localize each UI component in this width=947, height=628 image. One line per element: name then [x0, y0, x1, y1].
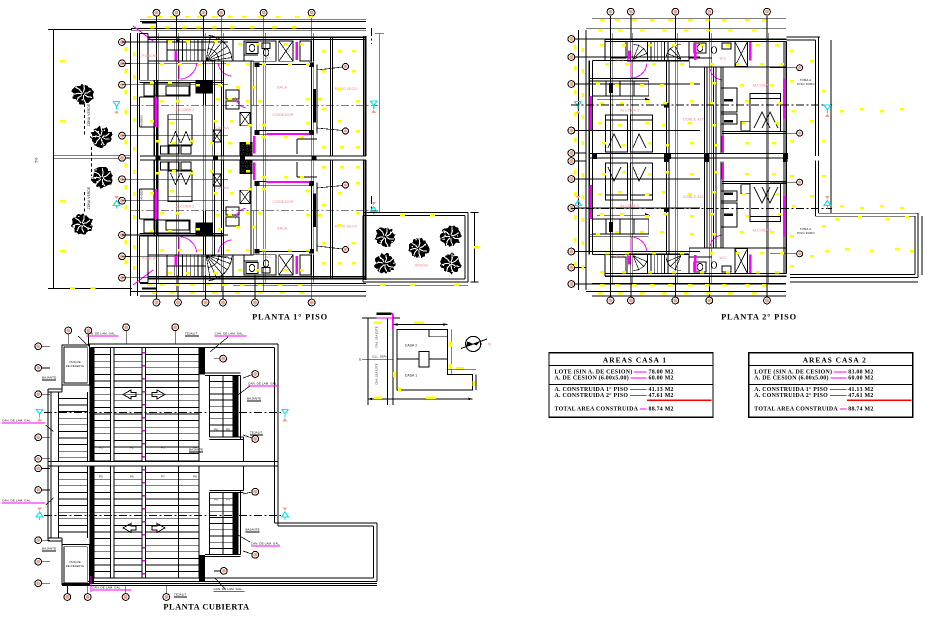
sala window black bar: [313, 89, 316, 123]
svg-text:BAJANTE: BAJANTE: [42, 376, 56, 380]
plan1 left cyan level markers: [113, 102, 120, 110]
p2 magenta below alcoba: [722, 163, 724, 179]
svg-text:LOTE (SIN A. DE CESION): LOTE (SIN A. DE CESION): [754, 368, 832, 375]
kitchen x-box: [240, 190, 250, 203]
table frame AREAS CASA 2: [749, 353, 913, 418]
hall wall below stairs: [148, 254, 254, 256]
entry door arc: [180, 64, 197, 79]
unit outer top wall: [148, 36, 366, 38]
svg-text:CRA. 22A ESTE: CRA. 22A ESTE: [375, 363, 379, 385]
svg-text:47.61 M2: 47.61 M2: [848, 393, 873, 399]
svg-text:W.C.: W.C.: [720, 57, 728, 61]
p2 left wall magenta window: [590, 185, 593, 219]
svg-text:CRA. 22A ESTE: CRA. 22A ESTE: [375, 326, 379, 348]
zona verde dashed dividers: [84, 104, 86, 136]
plan1 left grid line: [130, 33, 132, 296]
wc block: [244, 255, 276, 275]
svg-text:60.00 M2: 60.00 M2: [848, 376, 873, 382]
alcoba bed: [168, 171, 192, 201]
plan1 right dashdot vertical: [371, 28, 373, 44]
p2 stair magenta strip: [628, 50, 631, 59]
interior door arc 2: [218, 63, 232, 76]
svg-text:41.13 M2: 41.13 M2: [848, 387, 873, 393]
small x-box by party wall: [213, 174, 221, 186]
porch wall continuation: [139, 61, 141, 80]
p2 left wall magenta window: [590, 96, 593, 130]
p2 wardrobe column: [720, 67, 722, 154]
roof tank box top-left: [62, 345, 89, 385]
svg-text:N: N: [488, 342, 491, 347]
svg-text:BAJA: BAJA: [616, 59, 625, 63]
roof cyan markers: [36, 409, 43, 417]
p2 closet x-box: [735, 249, 748, 274]
p2 right wall magenta: [783, 78, 786, 119]
p2 left wall: [588, 158, 590, 255]
plan1 unit1 geometry: [140, 34, 366, 157]
sala walls: [257, 64, 312, 66]
plan1 top grid circles: [156, 17, 158, 38]
roof right panels lower: [205, 553, 241, 555]
tree Z2: [89, 126, 112, 149]
sala bottom magenta window: [267, 181, 309, 183]
alcoba bed: [168, 115, 192, 145]
p2 right wall: [783, 158, 785, 274]
p2 stair block: [627, 42, 688, 61]
svg-text:CASA 2: CASA 2: [405, 344, 417, 348]
svg-text:P9: P9: [226, 428, 230, 432]
roof step lines right: [243, 437, 245, 462]
svg-text:PISO DURO: PISO DURO: [797, 231, 815, 235]
tree J4: [374, 253, 396, 274]
site casa2 lot outline: [397, 330, 448, 360]
svg-text:COCINA: COCINA: [215, 126, 229, 130]
p2 beds left room: [606, 115, 628, 152]
svg-text:CASA 1: CASA 1: [405, 374, 417, 378]
svg-text:TOTAL AREA CONSTRUIDA: TOTAL AREA CONSTRUIDA: [555, 407, 639, 413]
svg-text:CAN. DE LAM. GAL.: CAN. DE LAM. GAL.: [215, 332, 244, 336]
roof tank box bottom-left: [62, 545, 89, 585]
svg-text:BAJANTE: BAJANTE: [189, 448, 203, 452]
svg-text:88.74 M2: 88.74 M2: [649, 407, 674, 413]
bedside tables and footer: [161, 146, 169, 154]
svg-text:P3: P3: [161, 446, 165, 450]
stair block: [167, 255, 233, 277]
p2 stair fan right: [675, 45, 681, 60]
p2 bath wall: [689, 66, 786, 68]
svg-text:TEJALIT: TEJALIT: [174, 593, 186, 597]
p2 closet arrow: [597, 99, 650, 101]
sala window black bar: [313, 194, 316, 228]
svg-text:CAN. DE LAM. GAL.: CAN. DE LAM. GAL.: [2, 419, 31, 423]
mid column walls: [250, 61, 252, 156]
svg-text:COCINA: COCINA: [215, 186, 229, 190]
roof mid band: [48, 461, 278, 463]
site yellow marks: [374, 322, 382, 325]
entry door arc: [180, 237, 197, 253]
sala columns: [255, 249, 260, 254]
sala walls: [257, 251, 312, 253]
svg-text:LOTE (SIN A. DE CESION): LOTE (SIN A. DE CESION): [555, 368, 633, 375]
svg-text:TEJALIT: TEJALIT: [250, 431, 262, 435]
jardin dimension lines: [473, 212, 475, 282]
svg-text:E: E: [359, 358, 361, 362]
plan1 yellow marks interior: [168, 40, 172, 42]
plan1 unit2 geometry (mirror): [140, 160, 366, 283]
plan1 yellow dimension marks: [147, 16, 152, 18]
svg-text:DE RESERVA: DE RESERVA: [66, 564, 85, 568]
plan2 left cyan markers: [575, 102, 582, 110]
svg-text:78.00 M2: 78.00 M2: [649, 369, 674, 375]
laundry band below sala: [297, 176, 317, 178]
top-right cabinet: [300, 255, 311, 275]
plan1 yellow marks garden: [410, 284, 415, 286]
svg-text:CAN. DE LAM. GAL.: CAN. DE LAM. GAL.: [87, 332, 116, 336]
left wall magenta window: [155, 97, 157, 127]
stove magenta strip: [253, 136, 255, 154]
plan2 horizontal grid lines: [571, 56, 700, 58]
svg-text:ALCOBA 1: ALCOBA 1: [753, 84, 772, 88]
site road lines: [367, 318, 369, 405]
svg-text:(CLL. SEPA): (CLL. SEPA): [372, 356, 388, 359]
svg-text:ZONA VERDE: ZONA VERDE: [87, 187, 91, 210]
p2 porch box top-left: [611, 257, 626, 274]
p2 columns: [664, 207, 669, 212]
svg-text:41.13 M2: 41.13 M2: [649, 387, 674, 393]
plan1 entry ramp black bar: [142, 22, 157, 24]
p2 closet x-box: [735, 42, 748, 67]
plan1 bottom grid circles: [156, 275, 158, 299]
roof outer boundary: [88, 343, 278, 345]
p2 closet band left: [589, 77, 649, 79]
svg-text:P9: P9: [226, 498, 230, 502]
plan1 garden jardin outline: [363, 211, 468, 213]
plan1 party wall band: [140, 155, 366, 157]
svg-text:ALCOBA 2: ALCOBA 2: [176, 205, 195, 209]
alcoba closet wall: [212, 61, 214, 156]
plan2 yellow marks: [600, 19, 605, 21]
p2 closet band left: [589, 236, 649, 238]
plan2 garden extension: [818, 212, 918, 214]
kitchen x-box: [240, 112, 250, 125]
p2 bench: [741, 185, 750, 194]
p2 wardrobe column: [720, 162, 722, 249]
p2 right wall: [783, 42, 785, 158]
p2 magenta strip: [749, 42, 752, 61]
svg-text:DE RESERVA: DE RESERVA: [66, 364, 85, 368]
p2 columns: [664, 103, 669, 108]
svg-text:COMEDOR: COMEDOR: [272, 200, 293, 204]
p2 stair door arc: [632, 63, 647, 78]
svg-text:A. CONSTRUIDA 1° PISO: A. CONSTRUIDA 1° PISO: [754, 386, 828, 393]
alcoba closet band: [140, 235, 224, 237]
svg-text:JARDIN: JARDIN: [414, 264, 428, 268]
p2 mid wall vertical: [665, 158, 667, 255]
plan2 right cyan markers: [824, 105, 831, 113]
plan1 yellow marks left column: [125, 47, 127, 52]
kitchen appliances: [226, 90, 239, 99]
magenta strip right of closet: [296, 42, 299, 60]
p2 alcoba1 door arc: [710, 235, 722, 246]
plan1 top dimension lines: [140, 19, 366, 21]
plan1 right dimension line: [378, 34, 380, 213]
p2 void railing lines: [703, 158, 705, 249]
svg-text:TOTAL AREA CONSTRUIDA: TOTAL AREA CONSTRUIDA: [754, 407, 838, 413]
svg-text:47.61 M2: 47.61 M2: [649, 393, 674, 399]
p2 wc magenta strip left: [694, 255, 697, 272]
p2 top wall: [605, 275, 786, 277]
svg-text:P8: P8: [193, 475, 197, 479]
svg-text:AREAS CASA 1: AREAS CASA 1: [603, 355, 667, 364]
magenta strip right of closet: [296, 256, 299, 274]
top-right cabinet: [300, 41, 311, 61]
svg-text:BAJA: BAJA: [616, 254, 625, 258]
p2 wc block: [689, 248, 735, 273]
p2 top wall: [605, 38, 786, 40]
plan2 interior circles right rooms: [770, 67, 796, 69]
unit left outer wall: [153, 160, 155, 236]
site road cross line: [362, 358, 393, 360]
kitchen dark box: [196, 223, 213, 236]
plan2 bottom grid circles: [610, 276, 612, 297]
svg-text:CAN. DE LAM. GAL.: CAN. DE LAM. GAL.: [92, 586, 121, 590]
svg-text:PLANTA 2° PISO: PLANTA 2° PISO: [721, 313, 797, 322]
plan2 right boundary: [786, 36, 820, 38]
p2 bench: [741, 121, 750, 130]
patio seco walls: [329, 37, 331, 156]
roof slope arrows lower: [123, 523, 136, 532]
roof thick bar right bottom: [199, 555, 205, 581]
sala bottom magenta window: [267, 133, 309, 135]
p2 stair door arc: [632, 237, 647, 252]
p2 right wall magenta: [783, 196, 786, 237]
plan2 party wall band: [589, 153, 786, 155]
p2 alcoba1 door arc: [710, 69, 722, 80]
svg-text:P2: P2: [130, 446, 134, 450]
bedside tables and footer: [161, 162, 169, 170]
stove magenta strip: [253, 163, 255, 181]
alcoba right wall: [220, 160, 222, 255]
roof panels upper unit: [58, 392, 60, 462]
svg-text:P6: P6: [130, 475, 134, 479]
p2 beds left room: [606, 163, 628, 200]
site north compass: [466, 336, 481, 351]
svg-text:PLANTA CUBIERTA: PLANTA CUBIERTA: [163, 603, 249, 612]
patio seco walls: [329, 160, 331, 279]
left wall magenta window: [155, 189, 157, 219]
p2 wc block: [689, 42, 735, 67]
roof leader lines: [78, 336, 95, 352]
tree J3: [408, 238, 429, 258]
plan right wall: [363, 36, 365, 156]
plan1 horizontal grid lines: [122, 41, 228, 43]
svg-text:CAN. DE LAM. GAL.: CAN. DE LAM. GAL.: [2, 499, 31, 503]
hall wall below stairs: [148, 60, 254, 62]
roof thick bar left: [90, 348, 95, 462]
table red underline AREAS CASA 1: [647, 399, 712, 401]
p2 alcoba1 bottom wall: [722, 183, 786, 185]
site casa1 lot outline: [397, 359, 473, 390]
stove hatch box: [240, 143, 252, 157]
svg-text:A. CONSTRUIDA 2° PISO: A. CONSTRUIDA 2° PISO: [555, 392, 629, 399]
svg-text:AREAS CASA 2: AREAS CASA 2: [803, 355, 867, 364]
roof grid circles bottom: [64, 594, 71, 601]
small x-box by party wall: [213, 130, 221, 142]
stair rail lines: [167, 49, 206, 51]
svg-text:TEJALIT: TEJALIT: [185, 332, 197, 336]
svg-text:5%: 5%: [35, 157, 39, 162]
p2 stair fan right: [675, 256, 681, 271]
p2 stair magenta strip: [628, 256, 631, 265]
p2 hall wall: [592, 60, 689, 62]
unit left porch walls: [139, 255, 141, 283]
plan2 unit2 geometry mirror: [589, 157, 788, 276]
wc block: [244, 41, 276, 61]
p2 wc magenta strip left: [694, 43, 697, 60]
plan2 left grid line and dimension lines: [578, 30, 580, 290]
alcoba right wall: [220, 61, 222, 156]
plan2 bottom dimension lines: [592, 283, 786, 285]
stair fan: [206, 36, 211, 62]
p2 stair fan left: [633, 45, 639, 60]
roof panels lower unit: [58, 466, 60, 538]
p2 alcoba1 bottom wall: [722, 131, 786, 133]
plan1 bottom ramp magenta: [133, 270, 153, 285]
roof left profile: [47, 389, 49, 541]
hall-kitchen wall: [202, 211, 204, 255]
svg-text:BAJANTE: BAJANTE: [246, 528, 260, 532]
unit left outer wall: [153, 80, 155, 156]
tree J2: [440, 225, 462, 247]
svg-text:ALCOBA 1: ALCOBA 1: [753, 229, 772, 233]
svg-text:A. DE CESION (6.00x5.00): A. DE CESION (6.00x5.00): [555, 375, 629, 382]
svg-text:ALCOBA 3: ALCOBA 3: [620, 204, 639, 208]
plan1 title legend black bar: [377, 312, 392, 315]
patio interior circles: [317, 67, 343, 70]
svg-text:P5: P5: [99, 475, 103, 479]
plan2 top dimension lines: [592, 17, 786, 19]
plan2 garden dimension lines: [830, 40, 832, 213]
svg-text:TANQUE: TANQUE: [69, 560, 81, 564]
site magenta connector: [377, 312, 392, 315]
p2 stair block: [627, 255, 688, 274]
hall-kitchen wall: [202, 61, 204, 105]
stair fan: [206, 255, 211, 281]
plan1 title legend magenta: [377, 317, 394, 318]
svg-text:A. DE CESION (6.00x5.00): A. DE CESION (6.00x5.00): [754, 375, 828, 382]
stair magenta door strip: [175, 51, 177, 61]
roof slope arrows upper: [123, 390, 136, 399]
plan1 vertical grid lines: [156, 20, 158, 292]
table red underline AREAS CASA 2: [847, 399, 912, 401]
plan2 left grid circles: [571, 38, 586, 40]
svg-text:W.C.: W.C.: [265, 255, 273, 259]
p2 void railing lines: [703, 67, 705, 158]
plan1 left grid circles: [122, 41, 131, 43]
svg-text:SALA: SALA: [277, 227, 288, 231]
sala columns: [255, 62, 260, 67]
tree Z1: [71, 84, 94, 105]
svg-text:DOBLE ALT.: DOBLE ALT.: [683, 195, 705, 199]
window bay: [139, 189, 141, 219]
p2 hall wall: [592, 254, 689, 256]
plan2 vertical grid lines: [610, 18, 612, 291]
svg-text:PORCHE: PORCHE: [142, 54, 158, 58]
p2 closet arrow: [597, 214, 650, 216]
porch wall continuation: [139, 236, 141, 255]
roof right panels upper: [205, 372, 241, 374]
svg-text:CAN. DE LAM. GAL.: CAN. DE LAM. GAL.: [214, 587, 243, 591]
closet x-box: [279, 255, 293, 275]
stair block: [167, 39, 233, 61]
p2 magenta strip: [749, 255, 752, 274]
svg-text:CAN. DE LAM. GAL.: CAN. DE LAM. GAL.: [251, 542, 280, 546]
plan right wall: [363, 160, 365, 280]
svg-text:83.00 M2: 83.00 M2: [848, 369, 873, 375]
kitchen dark box: [196, 81, 213, 94]
roof thick bar right top: [199, 348, 205, 375]
plan1 property boundary left garden: [53, 30, 55, 289]
svg-text:BAJANTE: BAJANTE: [42, 547, 56, 551]
svg-text:TANQUE: TANQUE: [69, 360, 81, 364]
svg-text:88.74 M2: 88.74 M2: [848, 407, 873, 413]
svg-text:P1: P1: [99, 446, 103, 450]
svg-text:P7: P7: [161, 475, 165, 479]
plan1 party line through garden: [54, 155, 132, 157]
plan1 section dash lines: [131, 104, 378, 106]
p2 left wall: [588, 61, 590, 158]
p2 stair fan left: [633, 256, 639, 271]
plan1 bottom ramp black bar: [142, 287, 157, 289]
svg-text:W.C.: W.C.: [720, 256, 728, 260]
site dimension lines: [394, 324, 448, 326]
laundry band below sala: [297, 138, 317, 140]
svg-text:PLANTA 1° PISO: PLANTA 1° PISO: [252, 313, 328, 322]
door arc kitchen: [235, 208, 246, 219]
alcoba closet wall: [212, 160, 214, 255]
roof magenta channel ticks: [143, 352, 146, 354]
p2 porch box top-left: [611, 42, 626, 59]
unit left porch walls: [139, 34, 141, 62]
p2 magenta below alcoba: [722, 136, 724, 152]
svg-text:DOBLE ALT.: DOBLE ALT.: [683, 118, 705, 122]
alcoba closet band: [140, 79, 224, 81]
svg-text:CAN. DE LAM. GAL.: CAN. DE LAM. GAL.: [248, 382, 277, 386]
plan1 right cyan markers: [370, 101, 377, 109]
svg-text:COMEDOR: COMEDOR: [272, 113, 293, 117]
svg-text:P9: P9: [214, 498, 218, 502]
svg-text:BAJANTE: BAJANTE: [247, 397, 261, 401]
stair rail lines: [167, 265, 206, 267]
svg-text:ALCOBA 3: ALCOBA 3: [620, 109, 639, 113]
stair magenta door strip: [175, 255, 177, 265]
svg-text:PISO DURO: PISO DURO: [797, 82, 815, 86]
svg-text:A. CONSTRUIDA 2° PISO: A. CONSTRUIDA 2° PISO: [754, 392, 828, 399]
svg-text:W.C.: W.C.: [265, 57, 273, 61]
svg-text:P9: P9: [214, 428, 218, 432]
svg-text:A. CONSTRUIDA 1° PISO: A. CONSTRUIDA 1° PISO: [555, 386, 629, 393]
plan2 unit1 geometry: [589, 39, 788, 158]
tree J1: [375, 227, 396, 247]
unit outer top wall: [148, 278, 366, 280]
stove hatch box: [240, 160, 252, 174]
svg-text:ANDEN: ANDEN: [140, 115, 144, 127]
p2 alcoba1 bed: [750, 184, 780, 222]
tree J5: [440, 252, 462, 274]
kitchen appliances: [226, 217, 239, 226]
patio interior circles: [317, 246, 343, 249]
plan1 entry ramp magenta: [133, 26, 153, 41]
mid column walls: [250, 160, 252, 255]
